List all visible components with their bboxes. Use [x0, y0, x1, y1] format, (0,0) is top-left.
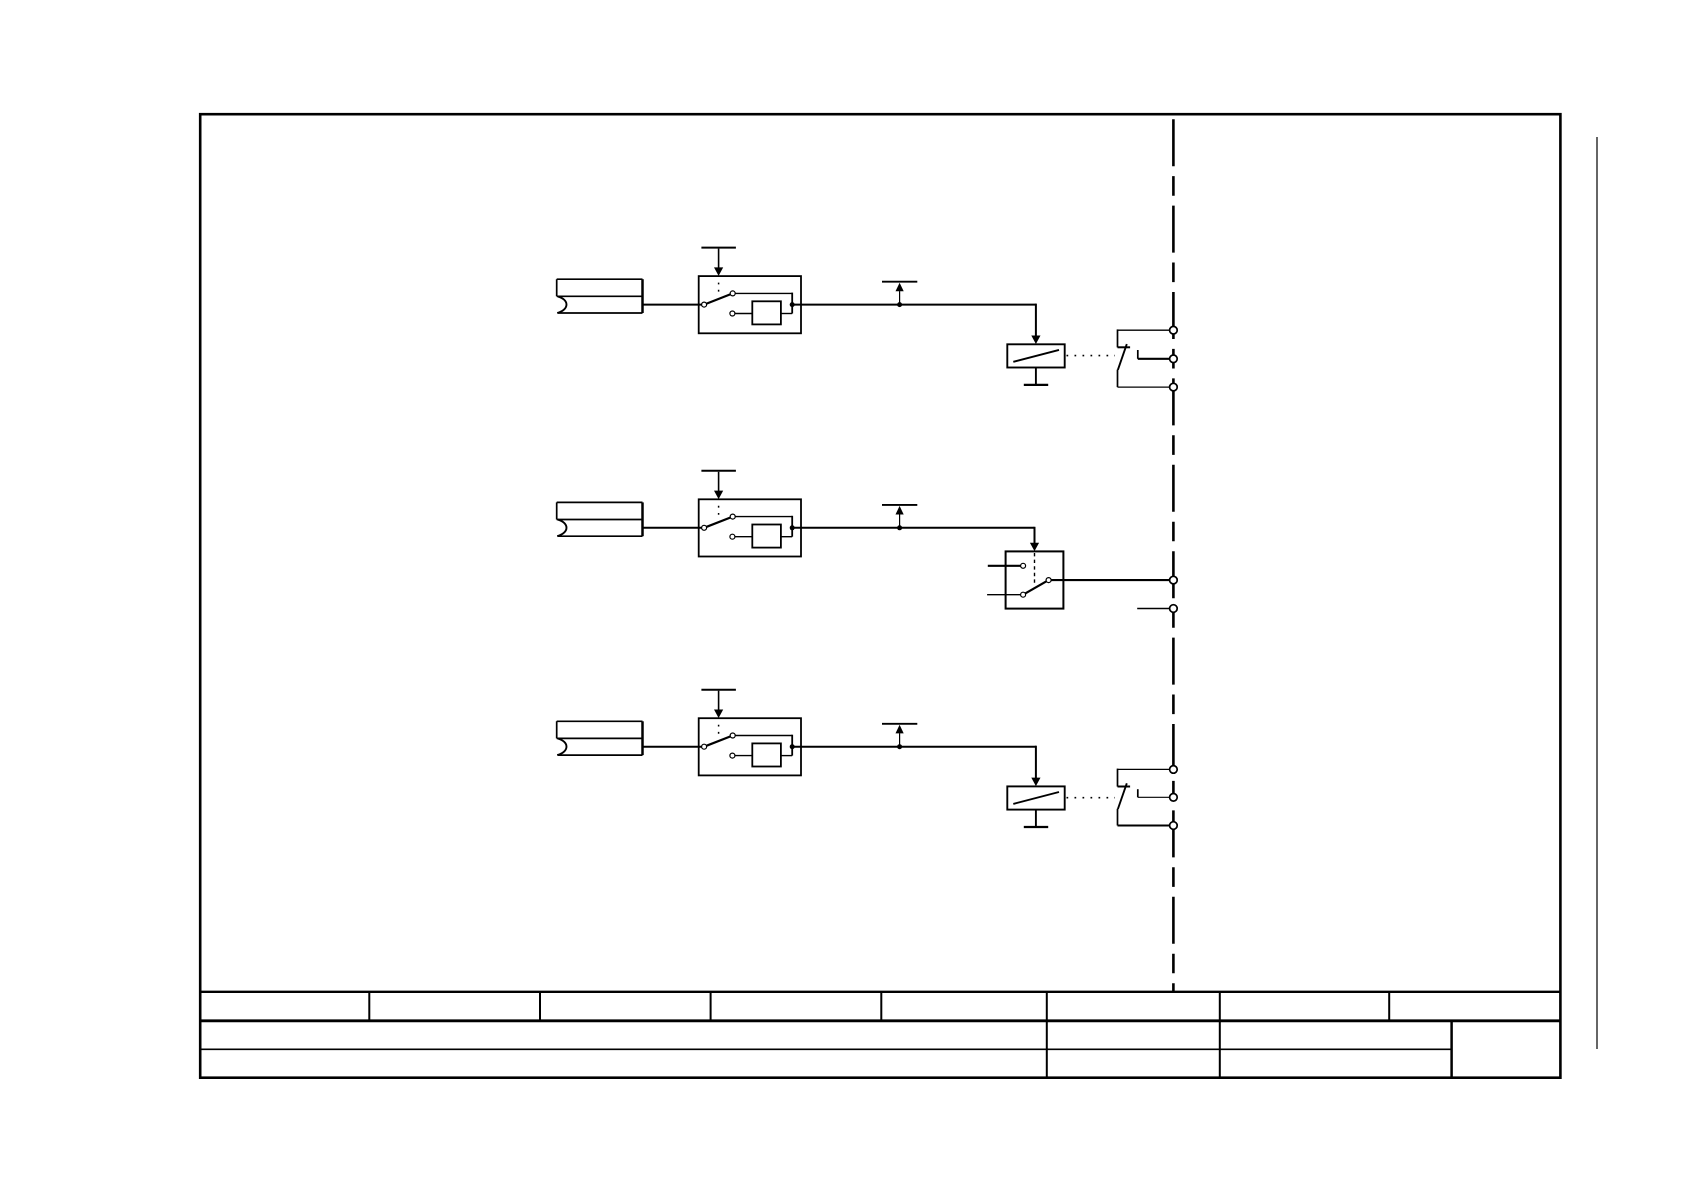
wire lower contact to suppressor (row 1) — [732, 313, 752, 315]
actuation T-bar above switch box (row 1) — [701, 247, 736, 249]
main wire to the right (row 2) — [792, 527, 1034, 529]
main wire to the right (row 1) — [792, 304, 1036, 306]
stub wire at bus lower node (row 2) — [1137, 608, 1173, 610]
switch box (row 1) — [699, 276, 801, 333]
stub wire to upper-left contact (row 2) — [988, 565, 1021, 567]
switch contact circle left (row 1) — [702, 302, 707, 307]
changeover contact (row 3) — [1118, 769, 1174, 826]
switch contact circle upper (row 3) — [730, 733, 735, 738]
title block top line — [200, 991, 1560, 993]
bus switch circle upper-left (row 2) — [1021, 563, 1026, 568]
cable connector (row 1) — [557, 279, 643, 313]
junction dot at up arrow (row 2) — [897, 525, 902, 530]
switch contact circle left (row 2) — [702, 525, 707, 530]
up arrow reference with T-bar (row 1) — [882, 282, 917, 305]
switch contact circle lower (row 1) — [730, 311, 735, 316]
suppressor block (row 2) — [752, 525, 781, 548]
dotted actuation line in switch box (row 3) — [718, 725, 720, 735]
wire lower contact to suppressor (row 2) — [732, 536, 752, 538]
wire connector to switch box (row 1) — [643, 304, 705, 306]
title block middle line — [200, 1048, 1451, 1050]
wire turning down into relay coil (row 1) — [1031, 304, 1040, 344]
switch contact circle upper (row 2) — [730, 514, 735, 519]
ground symbol below relay coil (row 1) — [1024, 368, 1048, 385]
title block full-height divider 2 — [1219, 992, 1221, 1078]
title block lower divider — [1450, 1021, 1453, 1078]
wire suppressor to junction (row 3) — [781, 755, 792, 757]
bus line (dashed vertical net) — [1172, 119, 1175, 991]
actuation T-bar above switch box (row 2) — [701, 470, 736, 472]
drawing frame border — [200, 114, 1560, 1077]
bus switch circle right (row 2) — [1046, 578, 1051, 583]
title block full-height divider 1 — [1046, 992, 1048, 1078]
switch box (row 3) — [699, 718, 801, 775]
bus node circle bottom (row 3) — [1170, 822, 1178, 830]
switch box (row 2) — [699, 499, 801, 556]
bus node circle bottom (row 1) — [1170, 383, 1178, 391]
dashed actuation line in bus switch box (row 2) — [1034, 553, 1036, 584]
wire connector to switch box (row 3) — [643, 746, 705, 748]
switch contact circle left (row 3) — [702, 744, 707, 749]
wire turning down into bus switch box (row 2) — [1030, 527, 1039, 551]
title block header divider 5 — [1388, 992, 1390, 1021]
wire blade contact to junction (row 1) — [733, 293, 793, 314]
junction dot at up arrow (row 3) — [897, 744, 902, 749]
title block header divider 2 — [539, 992, 541, 1021]
dotted actuation line in switch box (row 2) — [718, 506, 720, 516]
down arrow into switch box (row 1) — [714, 249, 723, 276]
wire suppressor to junction (row 2) — [781, 536, 792, 538]
cable connector (row 3) — [557, 721, 643, 755]
junction dot in switch box (row 1) — [790, 302, 795, 307]
changeover contact (row 1) — [1118, 329, 1174, 387]
junction dot at up arrow (row 1) — [897, 302, 902, 307]
title block header divider 3 — [710, 992, 712, 1021]
down arrow into switch box (row 2) — [714, 472, 723, 499]
bus switch box (row 2) — [1006, 551, 1064, 608]
dotted actuation line in switch box (row 1) — [718, 283, 720, 293]
junction dot in switch box (row 3) — [790, 744, 795, 749]
wire connector to switch box (row 2) — [643, 527, 705, 529]
relay coil (row 3) — [1007, 786, 1064, 809]
bus node circle top (row 3) — [1170, 766, 1178, 774]
dotted mechanical link coil to contact (row 3) — [1067, 797, 1116, 799]
cable connector (row 2) — [557, 502, 643, 536]
title block line below header row — [200, 1019, 1560, 1022]
down arrow into switch box (row 3) — [714, 691, 723, 718]
bus node circle top (row 1) — [1170, 326, 1178, 334]
switch contact circle lower (row 2) — [730, 534, 735, 539]
dotted mechanical link coil to contact (row 1) — [1067, 355, 1116, 357]
switch contact circle lower (row 3) — [730, 753, 735, 758]
bus node circle middle (row 1) — [1170, 355, 1178, 363]
bus node circle middle (row 3) — [1170, 794, 1178, 802]
bus node circle lower (row 2) — [1170, 605, 1178, 613]
wire turning down into relay coil (row 3) — [1031, 746, 1040, 786]
switch blade (row 1) — [704, 293, 733, 304]
main wire to the right (row 3) — [792, 746, 1036, 748]
relay coil (row 1) — [1007, 344, 1064, 367]
wire bus switch to bus (row 2) — [1049, 579, 1174, 581]
up arrow reference with T-bar (row 3) — [882, 724, 917, 747]
stub wire to lower-left contact (row 2) — [987, 594, 1021, 596]
relay coil diagonal (row 1) — [1013, 350, 1059, 362]
bus switch blade (row 2) — [1023, 580, 1049, 595]
actuation T-bar above switch box (row 3) — [701, 689, 736, 691]
wire blade contact to junction (row 2) — [733, 516, 793, 537]
switch blade (row 2) — [704, 517, 733, 528]
switch blade (row 3) — [704, 736, 733, 747]
switch contact circle upper (row 1) — [730, 291, 735, 296]
ground symbol below relay coil (row 3) — [1024, 810, 1048, 827]
suppressor block (row 1) — [752, 301, 781, 324]
wire suppressor to junction (row 1) — [781, 313, 792, 315]
suppressor block (row 3) — [752, 743, 781, 766]
bus node circle upper (row 2) — [1170, 576, 1178, 584]
relay coil diagonal (row 3) — [1013, 792, 1059, 804]
up arrow reference with T-bar (row 2) — [882, 505, 917, 528]
junction dot in switch box (row 2) — [790, 525, 795, 530]
title block header divider 4 — [880, 992, 882, 1021]
page edge marker line — [1596, 137, 1598, 1049]
title block header divider 1 — [368, 992, 370, 1021]
wire lower contact to suppressor (row 3) — [732, 755, 752, 757]
wire blade contact to junction (row 3) — [733, 735, 793, 756]
bus switch circle lower-left (row 2) — [1021, 592, 1026, 597]
